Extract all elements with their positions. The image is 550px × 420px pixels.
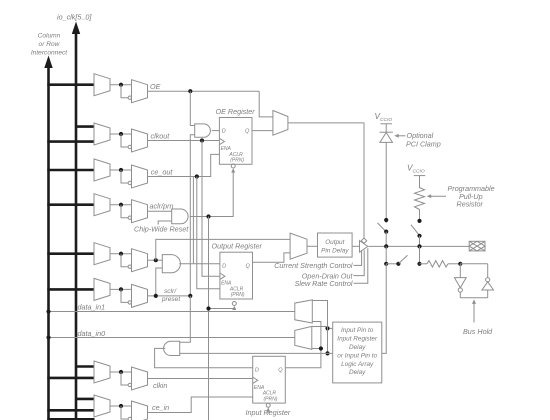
svg-text:Logic Array: Logic Array — [341, 361, 374, 368]
svg-text:Q: Q — [245, 129, 250, 135]
wire ce_in to Input Register ENA — [148, 397, 253, 413]
mux data_in0 select — [295, 326, 312, 349]
mux clkin (second-level) — [132, 367, 148, 390]
svg-text:Q: Q — [246, 263, 251, 269]
node aclr to output reg junction — [206, 306, 210, 310]
wire AND U1 output to OE register D — [212, 130, 220, 132]
svg-text:Interconnect: Interconnect — [31, 50, 68, 57]
svg-text:Pin Delay: Pin Delay — [321, 247, 349, 254]
svg-text:preset: preset — [161, 296, 181, 303]
wire OE bypass to OE mux — [259, 91, 273, 117]
bus hold latch: right inverter (pointing up) — [487, 264, 489, 278]
wire clkin to Input Register clock — [148, 378, 253, 380]
node sclr junction at AND U2 branch — [154, 294, 158, 298]
wire aclr/prn to chip-wide AND — [148, 210, 172, 212]
register Output box — [220, 252, 253, 299]
node clkin junction dot — [119, 370, 123, 374]
svg-text:(PRN): (PRN) — [264, 396, 278, 402]
pin pad symbol — [469, 241, 485, 251]
io_clk vertical bus line — [75, 30, 78, 420]
node ce_in junction dot — [119, 404, 123, 408]
wire interconnect row y=126.6 — [75, 125, 95, 128]
register Input box — [253, 356, 286, 403]
wire interconnect row y=419.3 — [47, 418, 94, 420]
wire clkout to OE register clock — [148, 140, 220, 142]
wire delay box output — [328, 327, 333, 329]
wire Chip-Wide Reset input — [158, 221, 172, 225]
svg-text:Delay: Delay — [349, 369, 366, 376]
AND gate U3 (input path) (mirrored, inputs on right) — [164, 341, 180, 355]
node OE junction dot — [119, 83, 123, 87]
switch arm clamp enable — [378, 223, 386, 231]
mux ce_in (first-level, from interconnect) — [94, 395, 110, 417]
programmable-bit bubble on aclr/prn mux lower input — [128, 216, 131, 219]
register OE box — [219, 118, 252, 165]
wire ce_in big-mux output to junction — [110, 405, 132, 407]
AND gate U1 (OE register D input) — [195, 124, 211, 137]
bubble below OE register — [231, 164, 235, 168]
svg-text:aclr/prn: aclr/prn — [150, 202, 174, 211]
svg-text:Chip-Wide Reset: Chip-Wide Reset — [134, 224, 189, 233]
mux OE (first-level, from interconnect) — [94, 74, 110, 96]
arrow Bus Hold pointer — [473, 303, 475, 323]
wire buffer output to pin — [369, 245, 470, 247]
wire ce_out big-mux output to junction — [110, 169, 132, 171]
mux aclr/prn (first-level, from interconnect) — [94, 194, 110, 216]
programmable-bit bubble on OE mux lower input — [128, 96, 131, 99]
arrowhead into OE register bubble — [231, 168, 235, 172]
wire OE bent lower input — [121, 85, 128, 98]
AND gate U2 (Output register D input) — [162, 255, 180, 273]
bubble below Output register — [232, 302, 236, 306]
bus hold bottom wire — [460, 297, 487, 299]
mux data_out (second-level) — [132, 249, 148, 272]
clock input triangle of Input — [253, 377, 258, 383]
mux sclr/preset (second-level) — [132, 284, 148, 307]
svg-text:sclr/: sclr/ — [164, 288, 177, 295]
svg-text:data_in0: data_in0 — [78, 329, 106, 338]
wire aclr/prn big-mux output to junction — [110, 204, 132, 206]
node sclr junction at AND U1/U3 branch — [188, 294, 192, 298]
wire delay distribution vertical — [312, 301, 327, 354]
wire data_out to AND U2 — [148, 259, 163, 261]
wire aclr vertical distribution — [208, 217, 210, 420]
svg-text:Slew Rate Control: Slew Rate Control — [295, 279, 353, 288]
wire OE big-mux output to junction — [110, 84, 132, 86]
programmable-bit bubble on clkout mux lower input — [128, 145, 131, 148]
node data_out junction dot — [119, 252, 123, 256]
wire sclr/preset big-mux output to junction — [110, 288, 132, 290]
wire aclr to Output Register bubble — [209, 308, 235, 309]
wire OE — [148, 90, 260, 92]
svg-text:Output: Output — [325, 239, 344, 246]
svg-text:Resistor: Resistor — [457, 200, 484, 209]
wire ce_in bent lower input — [121, 406, 128, 419]
svg-text:Q: Q — [278, 368, 283, 374]
wire sclr/preset bent lower input — [121, 289, 128, 302]
node data_out junction — [154, 258, 158, 262]
wire Input Register Q up to data_in muxes — [286, 322, 321, 368]
wire sclr down to AND U3 top input — [180, 296, 191, 342]
mux ce_out (first-level, from interconnect) — [94, 159, 110, 181]
arrow to pull-up resistor — [430, 195, 447, 197]
svg-text:Column: Column — [38, 33, 61, 40]
wire sclr/preset — [148, 295, 191, 297]
svg-text:or Row: or Row — [39, 41, 61, 48]
node clkout junction dot — [119, 132, 123, 136]
svg-text:Current Strength Control: Current Strength Control — [274, 261, 353, 270]
svg-text:Bus Hold: Bus Hold — [463, 327, 493, 336]
wire interconnect row y=84.7 — [47, 83, 94, 86]
wire AND U2 output to Output Register D — [179, 263, 220, 265]
svg-text:io_clk[5..0]: io_clk[5..0] — [57, 13, 92, 22]
mux clkin (first-level, from interconnect) — [94, 361, 110, 383]
column/row interconnect vertical bus line — [47, 64, 50, 420]
mux OE (second-level) — [132, 80, 148, 103]
buffer control diamond — [361, 238, 366, 243]
node OE junction — [188, 89, 192, 93]
mux OE select (registered/combinational) — [273, 111, 288, 136]
svg-text:(PRN): (PRN) — [231, 292, 245, 298]
wire pull-up branch down with switch — [419, 210, 421, 222]
svg-text:ce_in: ce_in — [152, 403, 169, 412]
clock input triangle of OE — [219, 138, 224, 144]
svg-text:OE: OE — [150, 82, 161, 91]
wire aclr AND output to register preset bubbles — [190, 170, 233, 216]
resistor bus-hold series (horizontal zigzag) — [420, 263, 428, 265]
bubble below Input register — [266, 403, 270, 407]
wire OE down to AND U1 top input — [190, 91, 194, 125]
wire interconnect row y=253.7 — [47, 252, 94, 255]
svg-text:Delay: Delay — [349, 344, 366, 351]
arrow to PCI clamp diode — [397, 135, 406, 137]
mux clkout (second-level) — [132, 129, 148, 152]
bus hold latch: left inverter (pointing down) — [459, 264, 461, 278]
svg-text:D: D — [222, 263, 226, 269]
wire clkout big-mux output to junction — [110, 133, 132, 135]
arrowhead into Input register bubble — [266, 407, 270, 411]
node pin junctions — [384, 244, 388, 248]
wire sclr up to AND U1 lower input — [190, 135, 194, 296]
mux sclr/preset (first-level, from interconnect) — [94, 278, 110, 300]
node sclr/preset junction dot — [119, 287, 123, 291]
mux data_out (first-level, from interconnect) — [94, 243, 110, 265]
programmable-bit bubble on data_out mux lower input — [128, 265, 131, 268]
AND gate U4 chip-wide reset — [172, 209, 188, 224]
wire clkout down to Output Register clock — [202, 141, 220, 277]
node clkout junction — [200, 138, 204, 142]
mux aclr/prn (second-level) — [132, 200, 148, 223]
wire delay to AND U3 lower input — [180, 352, 333, 354]
mux output select — [290, 233, 307, 259]
wire ce_out to OE register ENA — [148, 154, 220, 176]
svg-text:data_in1: data_in1 — [78, 303, 106, 312]
svg-text:D: D — [255, 368, 259, 374]
svg-text:Input Register: Input Register — [337, 336, 378, 343]
wire clkin bent lower input — [121, 372, 128, 385]
box Output Pin Delay — [318, 233, 353, 257]
svg-text:D: D — [222, 129, 226, 135]
svg-text:clkout: clkout — [151, 132, 171, 141]
svg-text:ce_out: ce_out — [151, 167, 174, 176]
clock input triangle of Output — [220, 273, 225, 279]
wire data_out big-mux output to junction — [110, 253, 132, 255]
wire pin down to bus-hold row — [385, 246, 387, 263]
svg-text:Output Register: Output Register — [212, 242, 263, 251]
mux clkout (first-level, from interconnect) — [94, 123, 110, 145]
wire interconnect row y=170 — [47, 169, 94, 172]
svg-text:Input Pin to: Input Pin to — [341, 327, 374, 334]
mux ce_out (second-level) — [132, 165, 148, 188]
tri-state output buffer — [360, 241, 368, 253]
wire pull-up column down to bus-hold row — [419, 246, 421, 263]
programmable-bit bubble on sclr/preset mux lower input — [128, 301, 131, 304]
wire interconnect row y=289.4 — [47, 288, 94, 291]
wire AND U3 output to Input Register D — [155, 348, 253, 367]
node aclr/prn junction dot — [119, 203, 123, 207]
wire mux to Output Pin Delay — [307, 245, 318, 247]
resistor programmable pull-up (vertical zigzag) — [415, 188, 425, 210]
node ce_out junction dot — [119, 168, 123, 172]
wire interconnect row y=366.5 — [75, 365, 95, 368]
diode PCI clamp — [380, 131, 393, 133]
wire ce_out down to Output Register ENA — [197, 177, 220, 289]
wire delay to data_in0 mux upper input — [312, 326, 328, 328]
mux data_in1 select — [295, 300, 313, 323]
node on Q distribution — [319, 346, 323, 350]
mux ce_in (second-level) — [132, 401, 148, 420]
wire parallel track to Output Register D area — [192, 177, 194, 264]
programmable-bit bubble on ce_in mux lower input — [128, 417, 131, 420]
wire data_out bypass up and right to output mux — [156, 239, 290, 260]
programmable-bit bubble on clkin mux lower input — [128, 383, 131, 386]
wire clamp branch down with switch — [385, 142, 387, 223]
wire sclr up to AND U2 lower input — [156, 268, 163, 296]
svg-text:(PRN): (PRN) — [230, 158, 244, 164]
box Input Pin Delay — [333, 322, 382, 383]
node ce_out junction — [195, 174, 199, 178]
wire clkout bent lower input — [121, 134, 128, 147]
wire data_in1 to interconnect — [49, 311, 295, 313]
svg-text:clkin: clkin — [153, 381, 167, 390]
wire data_out bent lower input — [121, 254, 128, 267]
wire interconnect row y=377.9 — [47, 377, 94, 380]
wire OE register Q to OE mux — [252, 130, 273, 132]
wire delay to buffer — [352, 245, 359, 247]
wire Q to data_in0 mux lower input — [312, 348, 321, 350]
wire ce_out bent lower input — [121, 170, 128, 183]
node aclr junction — [206, 214, 210, 218]
wire aclr/prn bent lower input — [121, 205, 128, 218]
wire OE mux output down to tri-state buffer control — [288, 123, 364, 238]
wire data_in0 to interconnect — [49, 337, 295, 339]
programmable-bit bubble on ce_out mux lower input — [128, 181, 131, 184]
wire pin down to input delay — [382, 264, 386, 354]
svg-text:or Input Pin to: or Input Pin to — [337, 352, 377, 359]
svg-text:PCI Clamp: PCI Clamp — [406, 139, 441, 148]
wire interconnect row y=398.9 — [75, 398, 95, 401]
wire interconnect row y=204.7 — [47, 203, 94, 206]
wire interconnect row y=410.3 — [47, 409, 94, 412]
svg-text:OE Register: OE Register — [216, 107, 256, 116]
switch arm pull-up enable — [411, 225, 419, 236]
wire interconnect row y=141.6 — [47, 140, 94, 143]
wire clkin big-mux output to junction — [110, 371, 132, 373]
switch arm bus-hold enable — [399, 255, 408, 263]
wire Output register Q to output mux — [253, 253, 291, 262]
